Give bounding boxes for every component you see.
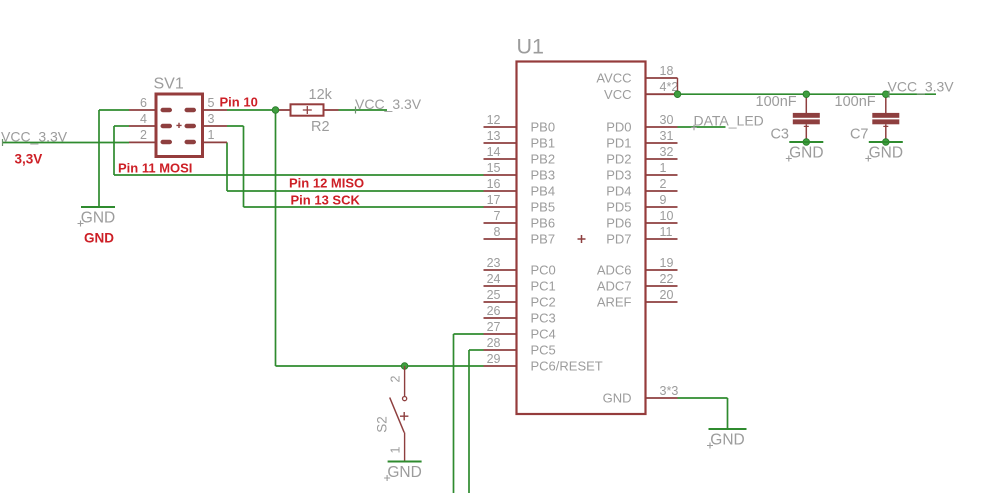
junction pin5/R2/reset-net	[272, 107, 279, 114]
pin number 1 S2	[388, 446, 402, 453]
supply tick VCC_3.3V left	[2, 139, 4, 146]
pin 10 PD6 lead	[646, 222, 678, 224]
svg-text:GND: GND	[84, 231, 114, 246]
svg-text:100nF: 100nF	[756, 94, 797, 110]
svg-text:22: 22	[660, 272, 674, 286]
label S2	[375, 416, 390, 433]
svg-text:Pin 10: Pin 10	[220, 95, 258, 110]
pin 9 PD5 lead	[646, 206, 678, 208]
svg-text:Pin 13 SCK: Pin 13 SCK	[291, 192, 361, 207]
svg-text:PB3: PB3	[531, 168, 556, 183]
svg-text:PD0: PD0	[606, 120, 631, 135]
pin lead SV1-4	[129, 125, 156, 127]
pin name PD1	[606, 136, 631, 151]
wire U1 GND pin	[678, 397, 728, 399]
ground symbol U1	[709, 428, 747, 430]
pin number 28	[487, 336, 501, 350]
wire down to GND symbol	[727, 398, 729, 429]
pin name PD3	[606, 168, 631, 183]
ground symbol C3	[789, 141, 823, 143]
svg-text:GND: GND	[789, 145, 823, 162]
pin 3*3 GND lead	[646, 397, 678, 399]
wire vertical x=243 SCK	[243, 126, 245, 207]
svg-text:12: 12	[487, 113, 501, 127]
pin name AVCC	[596, 71, 631, 86]
wire vertical x=114 MOSI	[113, 126, 115, 175]
pin 32 PD2 lead	[646, 158, 678, 160]
pin 17 PB5 lead	[484, 206, 517, 208]
svg-text:GND: GND	[387, 464, 421, 481]
svg-text:24: 24	[487, 272, 501, 286]
wire VCC_3.3V to SV1 pin 2	[2, 142, 129, 144]
op-amp / MCU U1 body	[517, 62, 646, 415]
switch S2	[390, 366, 409, 462]
pin number 22	[660, 272, 674, 286]
svg-text:15: 15	[487, 161, 501, 175]
pin name PC6/RESET	[531, 359, 603, 374]
junction C3 top	[803, 91, 810, 98]
pin lead SV1-2	[129, 141, 156, 143]
pin number 10	[660, 209, 674, 223]
svg-text:R2: R2	[311, 119, 330, 135]
wire vertical x=469 off page	[468, 350, 470, 493]
pin number 4*2	[660, 80, 679, 94]
svg-text:2: 2	[140, 128, 147, 142]
svg-text:PC1: PC1	[531, 279, 556, 294]
pin 18 AVCC lead	[646, 77, 678, 79]
pin number 11	[660, 225, 673, 239]
svg-text:3: 3	[208, 112, 215, 126]
pin name ADC7	[597, 279, 632, 294]
net name Pin 12 MISO	[289, 176, 364, 191]
svg-text:29: 29	[487, 352, 501, 366]
svg-text:28: 28	[487, 336, 501, 350]
svg-text:C3: C3	[770, 126, 789, 142]
wire vertical x=275 down to reset net	[275, 110, 277, 366]
wire Pin 11 MOSI net to PB3	[114, 174, 484, 176]
svg-text:1: 1	[388, 446, 402, 453]
wire SV1 pin 3 stub	[227, 125, 244, 127]
pin number 2 S2	[388, 375, 402, 382]
pin 4*2 VCC lead	[646, 93, 678, 95]
svg-text:2: 2	[660, 177, 667, 191]
wire reset net to PC6/RESET	[276, 365, 484, 367]
pin number 26	[487, 304, 501, 318]
svg-text:Pin 11 MOSI: Pin 11 MOSI	[118, 160, 192, 175]
svg-text:PD5: PD5	[606, 200, 631, 215]
svg-text:AVCC: AVCC	[596, 71, 631, 86]
ground symbol S2 label	[384, 464, 422, 481]
svg-text:20: 20	[660, 288, 674, 302]
pin 30 PD0 lead	[646, 126, 678, 128]
wire PC4 stub	[454, 333, 484, 335]
svg-text:12k: 12k	[309, 87, 333, 103]
pin 14 PB2 lead	[484, 158, 517, 160]
ground symbol S2	[388, 461, 422, 463]
pin 7 PB6 lead	[484, 222, 517, 224]
pin lead SV1-6	[129, 109, 156, 111]
ground symbol C7 label	[865, 145, 903, 162]
svg-text:PC2: PC2	[531, 295, 556, 310]
pin 12 PB0 lead	[484, 126, 517, 128]
pin number 1 SV1	[208, 128, 215, 142]
value 12k R2	[309, 87, 333, 103]
wire PC5 stub	[469, 349, 484, 351]
pin number 18	[660, 64, 674, 78]
svg-text:PC6/RESET: PC6/RESET	[531, 359, 603, 374]
label R2	[311, 119, 330, 135]
value 100nF C7	[835, 94, 876, 110]
ground symbol C3 label	[786, 145, 824, 162]
wire vertical x=227 MISO	[226, 142, 228, 191]
pin number 2 SV1	[140, 128, 147, 142]
pin name PB2	[531, 152, 556, 167]
svg-text:3,3V: 3,3V	[15, 152, 43, 167]
svg-text:27: 27	[487, 320, 501, 334]
junction VCC pin	[674, 91, 681, 98]
pin number 16	[487, 177, 501, 191]
pin number 7	[494, 209, 501, 223]
wire DATA_LED net stub	[678, 126, 726, 128]
supply tick VCC_3.3V right	[888, 91, 890, 98]
svg-text:11: 11	[660, 225, 673, 239]
pin name PC0	[531, 263, 556, 278]
pin number 12	[487, 113, 501, 127]
pin name VCC	[604, 87, 631, 102]
svg-text:PC5: PC5	[531, 343, 556, 358]
net name Pin 13 SCK	[291, 192, 361, 207]
pin 31 PD1 lead	[646, 142, 678, 144]
junction C7 top	[883, 91, 890, 98]
svg-text:26: 26	[487, 304, 501, 318]
pin number 19	[660, 256, 674, 270]
pin 28 PC5 lead	[484, 349, 517, 351]
connector SV1	[156, 94, 203, 157]
pin number 20	[660, 288, 674, 302]
ground symbol C7	[869, 141, 903, 143]
net label VCC_3.3V right	[888, 79, 955, 95]
pin name PC2	[531, 295, 556, 310]
net name Pin 11 MOSI	[118, 160, 192, 175]
pin name ADC6	[597, 263, 632, 278]
pin name PD0	[606, 120, 631, 135]
capacitor C3	[793, 94, 820, 142]
svg-text:DATA_LED: DATA_LED	[694, 113, 764, 129]
svg-text:13: 13	[487, 129, 501, 143]
pin number 3 SV1	[208, 112, 215, 126]
net label DATA_LED	[694, 113, 764, 129]
pin number 5 SV1	[208, 96, 215, 110]
svg-text:VCC_3.3V: VCC_3.3V	[1, 129, 68, 145]
svg-text:100nF: 100nF	[835, 94, 876, 110]
svg-text:19: 19	[660, 256, 674, 270]
pin name PB6	[531, 216, 556, 231]
pin 15 PB3 lead	[484, 174, 517, 176]
pin number 8	[494, 225, 501, 239]
ground symbol left label	[78, 210, 116, 227]
pin 2 PD4 lead	[646, 190, 678, 192]
pin number 1	[660, 161, 667, 175]
pin name PD2	[606, 152, 631, 167]
pin number 24	[487, 272, 501, 286]
svg-text:PB2: PB2	[531, 152, 556, 167]
svg-text:GND: GND	[869, 145, 903, 162]
pin 29 PC6/RESET lead	[484, 365, 517, 367]
pin 16 PB4 lead	[484, 190, 517, 192]
pin 19 ADC6 lead	[646, 269, 678, 271]
svg-text:SV1: SV1	[154, 76, 184, 93]
label U1	[517, 35, 544, 59]
pin number 4 SV1	[140, 112, 147, 126]
svg-text:S2: S2	[375, 416, 390, 433]
svg-text:PB7: PB7	[531, 232, 556, 247]
label C7	[850, 126, 869, 142]
pin 26 PC3 lead	[484, 317, 517, 319]
junction C7 bottom	[883, 139, 890, 146]
svg-text:PD6: PD6	[606, 216, 631, 231]
svg-text:VCC: VCC	[604, 87, 631, 102]
wire R2 to VCC_3.3V supply	[339, 109, 388, 111]
svg-text:4: 4	[140, 112, 147, 126]
svg-text:PC4: PC4	[531, 327, 556, 342]
net label VCC_3.3V left	[1, 129, 68, 145]
pin 13 PB1 lead	[484, 142, 517, 144]
pin lead R2 right	[324, 109, 339, 111]
svg-text:23: 23	[487, 256, 501, 270]
wire vertical x=453 off page	[453, 334, 455, 493]
wire SV1 pin 5 to junction	[227, 109, 277, 111]
pin number 14	[487, 145, 501, 159]
pin number 9	[660, 193, 667, 207]
svg-text:GND: GND	[710, 432, 744, 449]
svg-text:16: 16	[487, 177, 501, 191]
svg-text:9: 9	[660, 193, 667, 207]
svg-text:32: 32	[660, 145, 674, 159]
svg-text:PC0: PC0	[531, 263, 556, 278]
pin name PB7	[531, 232, 556, 247]
svg-text:PD4: PD4	[606, 184, 631, 199]
svg-text:GND: GND	[603, 391, 632, 406]
pin 23 PC0 lead	[484, 269, 517, 271]
wire AVCC to VCC tie	[677, 78, 679, 94]
svg-text:17: 17	[487, 193, 501, 207]
pin lead SV1-5	[203, 109, 228, 111]
net name GND red	[84, 231, 114, 246]
svg-text:PD1: PD1	[606, 136, 631, 151]
svg-text:Pin 12 MISO: Pin 12 MISO	[289, 176, 364, 191]
pin number 30	[660, 113, 674, 127]
pin name PD7	[606, 232, 631, 247]
pin name PB5	[531, 200, 556, 215]
svg-text:30: 30	[660, 113, 674, 127]
svg-text:VCC_3.3V: VCC_3.3V	[888, 79, 955, 95]
svg-text:10: 10	[660, 209, 674, 223]
svg-text:PB4: PB4	[531, 184, 556, 199]
pin 22 ADC7 lead	[646, 285, 678, 287]
resistor R2	[291, 104, 324, 115]
pin number 6 SV1	[140, 96, 147, 110]
pin name PB1	[531, 136, 556, 151]
pin number 17	[487, 193, 501, 207]
pin name PD5	[606, 200, 631, 215]
pin lead SV1-1	[203, 141, 228, 143]
net label VCC_3.3V at R2	[355, 96, 422, 112]
svg-text:PD7: PD7	[606, 232, 631, 247]
wire vertical x=99 to GND symbol	[98, 110, 100, 207]
svg-text:PB0: PB0	[531, 120, 556, 135]
label C3	[770, 126, 789, 142]
wire Pin 12 MISO net to PB4	[227, 190, 484, 192]
net name Pin 10	[220, 95, 258, 110]
wire SV1 pin 4 stub	[114, 125, 129, 127]
pin name PB0	[531, 120, 556, 135]
wire Pin 13 SCK net to PB5	[244, 206, 484, 208]
svg-text:ADC7: ADC7	[597, 279, 632, 294]
pin lead R2 left	[277, 109, 291, 111]
svg-text:3*3: 3*3	[660, 384, 679, 398]
svg-text:14: 14	[487, 145, 501, 159]
svg-text:8: 8	[494, 225, 501, 239]
svg-text:C7: C7	[850, 126, 869, 142]
value 100nF C3	[756, 94, 797, 110]
svg-text:PD3: PD3	[606, 168, 631, 183]
svg-text:PB1: PB1	[531, 136, 556, 151]
net name 3,3V	[15, 152, 43, 167]
svg-text:PB5: PB5	[531, 200, 556, 215]
pin number 3*3	[660, 384, 679, 398]
pin name PD6	[606, 216, 631, 231]
label SV1	[154, 76, 184, 93]
origin cross DATA_LED	[691, 125, 697, 131]
svg-text:25: 25	[487, 288, 501, 302]
pin name PB4	[531, 184, 556, 199]
pin name PD4	[606, 184, 631, 199]
pin number 25	[487, 288, 501, 302]
pin 25 PC2 lead	[484, 301, 517, 303]
svg-text:U1: U1	[517, 35, 544, 59]
pin name PC4	[531, 327, 556, 342]
pin name PB3	[531, 168, 556, 183]
svg-text:VCC_3.3V: VCC_3.3V	[355, 96, 422, 112]
ground symbol left	[81, 206, 115, 208]
junction S2 tap	[401, 363, 408, 370]
svg-text:5: 5	[208, 96, 215, 110]
svg-text:31: 31	[660, 129, 674, 143]
capacitor C7	[872, 94, 899, 142]
pin name GND	[603, 391, 632, 406]
pin number 13	[487, 129, 501, 143]
svg-text:PD2: PD2	[606, 152, 631, 167]
ground symbol U1 label	[707, 432, 745, 449]
svg-text:AREF: AREF	[597, 295, 632, 310]
supply tick VCC_3.3V at R2	[355, 107, 357, 114]
svg-text:PB6: PB6	[531, 216, 556, 231]
pin name PC5	[531, 343, 556, 358]
svg-text:18: 18	[660, 64, 674, 78]
svg-text:2: 2	[388, 375, 402, 382]
pin 1 PD3 lead	[646, 174, 678, 176]
svg-text:GND: GND	[81, 210, 115, 227]
pin number 27	[487, 320, 501, 334]
svg-text:6: 6	[140, 96, 147, 110]
pin 27 PC4 lead	[484, 333, 517, 335]
pin number 2	[660, 177, 667, 191]
junction C3 bottom	[803, 139, 810, 146]
wire SV1 pin 6 to GND vertical	[99, 109, 129, 111]
pin 24 PC1 lead	[484, 285, 517, 287]
svg-text:PC3: PC3	[531, 311, 556, 326]
pin name AREF	[597, 295, 632, 310]
svg-text:ADC6: ADC6	[597, 263, 632, 278]
pin 11 PD7 lead	[646, 238, 678, 240]
pin name PC1	[531, 279, 556, 294]
pin number 29	[487, 352, 501, 366]
svg-text:7: 7	[494, 209, 501, 223]
svg-text:1: 1	[660, 161, 667, 175]
wire VCC pin to VCC_3.3V right	[678, 93, 937, 95]
pin 8 PB7 lead	[484, 238, 517, 240]
pin number 31	[660, 129, 674, 143]
svg-text:1: 1	[208, 128, 215, 142]
pin 20 AREF lead	[646, 301, 678, 303]
pin name PC3	[531, 311, 556, 326]
pin number 15	[487, 161, 501, 175]
pin lead SV1-3	[203, 125, 228, 127]
pin number 23	[487, 256, 501, 270]
pin number 32	[660, 145, 674, 159]
